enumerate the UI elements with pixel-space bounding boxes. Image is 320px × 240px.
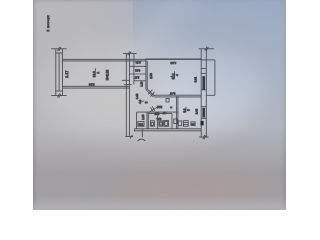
dark vent block in kitchen corner bbox=[201, 121, 204, 126]
window W1 (left exterior wall of room 1) bbox=[56, 49, 63, 96]
room 4 label (4 / 17.2) bbox=[170, 71, 179, 79]
svg-text:1.07: 1.07 bbox=[134, 75, 139, 78]
paper sheet bbox=[33, 0, 286, 210]
svg-text:0.81: 0.81 bbox=[156, 117, 161, 120]
svg-text:0.82: 0.82 bbox=[135, 69, 140, 72]
room 1 label (1 / 12.0) bbox=[92, 68, 100, 77]
closet column left line bbox=[133, 53, 135, 84]
svg-text:3.47: 3.47 bbox=[169, 92, 175, 96]
kitchen label (5 / 5.8) bbox=[183, 107, 191, 113]
bath tub bbox=[164, 121, 169, 127]
wall break tick (top of central wall) bbox=[123, 51, 137, 55]
svg-text:2.46: 2.46 bbox=[195, 108, 199, 114]
svg-text:СУ: СУ bbox=[162, 111, 166, 115]
door ticks in central wall bbox=[122, 80, 132, 84]
room 4 bottom wall bbox=[153, 95, 201, 97]
bottom wall (hall + kitchen) bbox=[134, 129, 201, 131]
svg-text:4.9: 4.9 bbox=[138, 99, 142, 103]
svg-text:4.48: 4.48 bbox=[135, 93, 139, 99]
balcony outline bbox=[206, 60, 215, 95]
kitchen stove bbox=[183, 121, 188, 127]
top wall (rooms 1 and 4) bbox=[62, 59, 201, 61]
svg-text:2.17: 2.17 bbox=[65, 70, 69, 77]
svg-text:1.10: 1.10 bbox=[141, 81, 144, 86]
entrance door swing arc bbox=[137, 139, 145, 141]
sink bbox=[159, 121, 163, 126]
hall label (3 / 4.9) bbox=[138, 99, 149, 103]
svg-text:ВС: ВС bbox=[192, 124, 195, 126]
wall break tick (bottom of central wall) bbox=[125, 135, 133, 138]
room 4 left wall bbox=[146, 59, 147, 89]
central wall (room1 / hall) bbox=[126, 53, 129, 136]
closet size labels bbox=[134, 61, 144, 87]
paper grain bbox=[33, 0, 286, 210]
svg-text:2.53: 2.53 bbox=[149, 73, 153, 79]
closet dividers bbox=[129, 66, 146, 81]
right exterior wall bbox=[201, 49, 206, 138]
svg-text:0.74: 0.74 bbox=[135, 61, 140, 64]
bathroom door diagonal with cross bbox=[148, 106, 159, 113]
utility marks near hall/kitchen corner bbox=[166, 98, 172, 108]
entrance doorway jambs bbox=[135, 129, 143, 137]
svg-text:3.31: 3.31 bbox=[194, 76, 198, 82]
svg-text:1.20: 1.20 bbox=[141, 114, 145, 120]
svg-text:H=2.38: H=2.38 bbox=[106, 70, 110, 81]
wall break tick (bottom of window wall) bbox=[51, 94, 66, 98]
bathroom divider wall bbox=[157, 113, 159, 128]
svg-text:3: 3 bbox=[144, 101, 148, 103]
svg-text:5.55: 5.55 bbox=[88, 83, 94, 87]
bathroom left wall bbox=[147, 112, 148, 129]
bathroom right wall bbox=[171, 113, 173, 128]
bottom wall of room 1 bbox=[62, 86, 129, 88]
svg-text:4.30: 4.30 bbox=[170, 61, 176, 65]
svg-text:2 поверх: 2 поверх bbox=[46, 15, 50, 32]
kitchen window in right wall bbox=[201, 107, 206, 119]
meter box with label bbox=[138, 122, 144, 127]
hall closet left wall bbox=[136, 112, 138, 128]
water unit on bathroom/kitchen wall bbox=[174, 119, 178, 124]
wall break tick (top of window wall) bbox=[51, 47, 66, 51]
balcony door/window block bbox=[201, 60, 206, 90]
svg-text:ПУ1: ПУ1 bbox=[139, 124, 144, 126]
diagonal corner wall with door of room 4 bbox=[146, 89, 155, 97]
kitchen left wall bbox=[176, 96, 178, 129]
wall break tick (bottom of right wall) bbox=[199, 135, 209, 139]
bathroom block top wall bbox=[137, 112, 178, 113]
boiler box BC bbox=[191, 122, 195, 126]
kitchen sink unit bbox=[178, 121, 181, 126]
wall break tick (top of right wall) bbox=[199, 47, 214, 51]
toilet bbox=[150, 121, 154, 126]
